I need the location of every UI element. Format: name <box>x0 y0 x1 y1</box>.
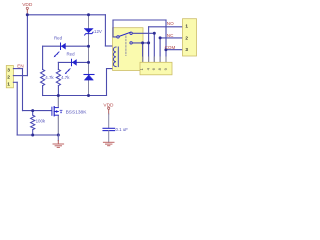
flyback diode D4 <box>84 75 94 81</box>
relay mechanical link (dashed) <box>125 36 127 56</box>
wire p1 column <box>142 43 144 62</box>
wire R1 column bottom <box>42 86 44 96</box>
svg-text:3: 3 <box>7 68 10 74</box>
svg-text:1: 1 <box>185 23 188 28</box>
wire coil bottom exit <box>107 67 117 96</box>
wire p4 column <box>159 38 161 62</box>
svg-text:3: 3 <box>185 47 188 52</box>
LED D2 Red <box>65 51 77 74</box>
wire pin1 row <box>13 81 17 83</box>
svg-text:4.7k: 4.7k <box>61 75 70 80</box>
relay pin stubs <box>143 57 166 62</box>
relay K1 body box <box>113 28 143 71</box>
wire p2 column <box>148 27 150 63</box>
LED D1 Red <box>54 35 66 57</box>
wire pole feed column <box>113 20 117 37</box>
wire NC contact row <box>132 32 154 34</box>
svg-text:100k: 100k <box>36 119 46 124</box>
svg-text:BSS138K: BSS138K <box>66 110 88 116</box>
wire zener chain column <box>88 15 90 96</box>
wire COM row to pin3 <box>166 49 183 51</box>
svg-text:12V: 12V <box>94 29 102 34</box>
wire coil top row <box>105 45 116 47</box>
wire COM top row <box>113 19 166 21</box>
wire GND column <box>16 82 18 135</box>
svg-text:Red: Red <box>54 35 63 40</box>
junction dot LED2 anode node <box>87 61 90 64</box>
junction dot drain/R2 <box>57 94 60 97</box>
junction dot gate row <box>31 109 34 112</box>
svg-text:2: 2 <box>7 75 10 81</box>
wire capacitor top lead <box>108 114 110 128</box>
capacitor C1 0.1 uF <box>103 128 115 130</box>
svg-text:2: 2 <box>185 35 188 40</box>
wire drain row <box>43 95 107 97</box>
wire NO contact row <box>132 42 148 44</box>
power symbol VDD (capacitor) <box>103 103 114 115</box>
wire NO row to pin1 <box>149 26 183 28</box>
wire NC row to pin2 <box>160 37 182 39</box>
wire pin2 row <box>13 75 27 77</box>
wire GND row <box>17 134 58 136</box>
wire pin3 EN row <box>13 68 22 70</box>
wire COM column (p5) <box>165 20 167 62</box>
svg-text:EN: EN <box>17 63 23 68</box>
wire LED2 row <box>58 61 88 63</box>
junction dot GND row / source <box>57 134 60 137</box>
svg-text:VDD: VDD <box>103 103 114 109</box>
wire p3 column <box>153 33 155 62</box>
wire R1 column top <box>42 46 44 69</box>
wire R2 column bottom <box>57 86 59 96</box>
MOSFET Q1 BSS138K <box>52 107 87 116</box>
resistor R3 100k <box>31 111 35 135</box>
junction dot VDD <box>26 13 29 16</box>
wire MOSFET source lead <box>57 116 59 136</box>
wire coil feed column <box>104 15 106 46</box>
relay switch pole and armature <box>117 32 133 44</box>
ground symbol (capacitor) <box>103 142 114 145</box>
wire LED1 row <box>43 45 89 47</box>
relay pin numbers (rotated) <box>139 67 168 70</box>
resistor R1 4.7k <box>41 69 45 85</box>
wire MOSFET drain lead <box>57 96 59 108</box>
junction dot NO row / p1 <box>141 41 144 44</box>
junction dot 100k bottom <box>31 134 34 137</box>
zener diode D3 12V <box>84 29 102 36</box>
wire R2 column top <box>57 62 59 69</box>
svg-text:COM: COM <box>165 45 176 50</box>
power symbol VDD (top left) <box>22 2 33 15</box>
wire capacitor bottom lead <box>108 131 110 143</box>
junction dot COM row / p5 <box>164 48 167 51</box>
svg-text:NO: NO <box>167 21 174 26</box>
ground symbol (left) <box>53 135 64 147</box>
resistor R2 4.7k <box>56 69 60 85</box>
svg-text:Red: Red <box>67 51 76 56</box>
relay pin box <box>140 62 172 75</box>
relay coil <box>113 47 118 67</box>
wire EN column <box>22 69 24 111</box>
connector J2 (NO/NC/COM, pins 1/2/3) <box>183 19 197 56</box>
junction dot NC contact / p3 <box>153 32 156 35</box>
wire VDD column to pin 2 <box>26 15 28 76</box>
junction dot chain/drain row <box>87 94 90 97</box>
wire VDD rail <box>27 14 105 16</box>
wire gate row <box>23 110 52 112</box>
junction dot NC row / p4 <box>159 36 162 39</box>
svg-text:1: 1 <box>7 81 10 87</box>
junction dot NO row / p2 <box>147 41 150 44</box>
junction dot rail/zener chain <box>87 13 90 16</box>
svg-text:NC: NC <box>167 33 174 38</box>
connector J1 (EN header, pins 3/2/1) <box>6 66 13 88</box>
junction dot LED1 anode node <box>87 45 90 48</box>
svg-text:0.1 uF: 0.1 uF <box>116 127 129 132</box>
svg-text:4.7k: 4.7k <box>45 75 54 80</box>
